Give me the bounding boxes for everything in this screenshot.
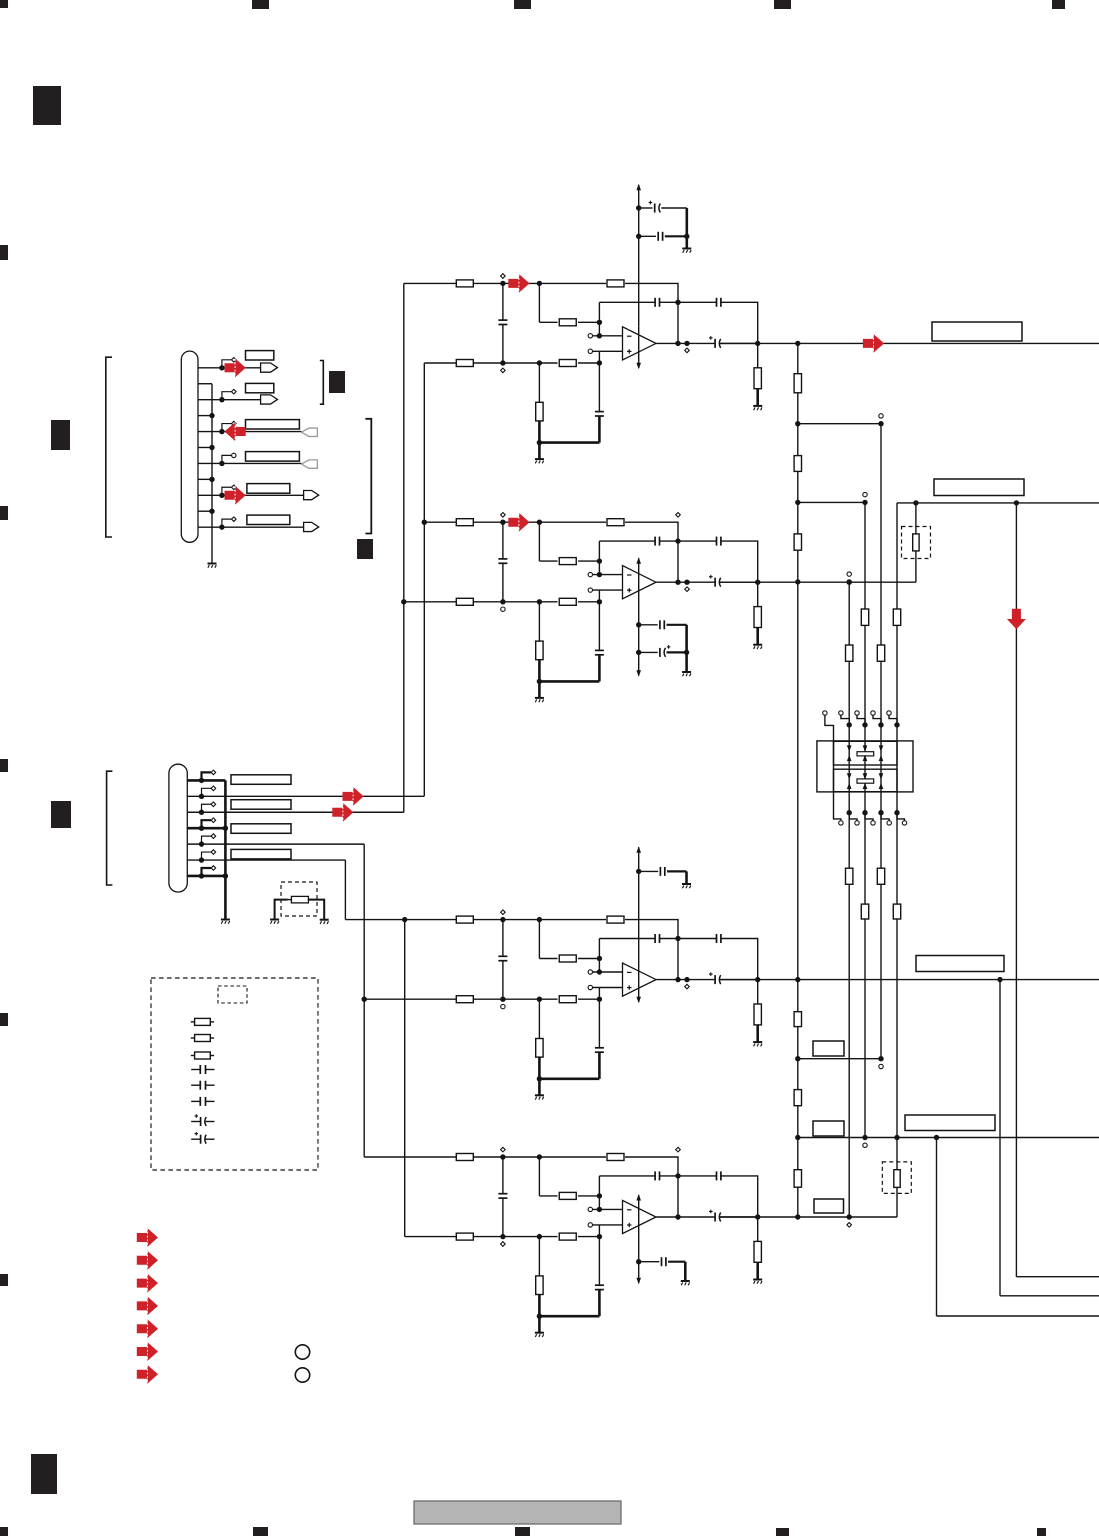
red arrow key 1 xyxy=(137,1228,158,1247)
red arrow key 5 xyxy=(137,1319,158,1338)
wire C106 to ground corner xyxy=(661,207,687,209)
ground rail stage4 xyxy=(681,1280,690,1282)
resistor R201 xyxy=(456,519,473,526)
bracket left of CN101 xyxy=(106,357,112,537)
resistor R305 xyxy=(559,996,576,1003)
op-amp U2 xyxy=(623,566,657,599)
wire chain seg2 xyxy=(797,393,799,456)
capacitor C401 node A xyxy=(502,1157,504,1194)
wire ground node stage2 xyxy=(539,680,599,683)
wire C306 corner xyxy=(667,870,687,872)
label box output 4 xyxy=(905,1115,995,1131)
wire plus input U3 xyxy=(588,985,592,989)
resistor R403 xyxy=(539,1195,557,1197)
resistor R406 xyxy=(538,1237,540,1276)
red arrow key 3 xyxy=(137,1274,158,1293)
capacitor C306 rail xyxy=(639,870,659,872)
label box CN101 pin1 xyxy=(246,351,274,360)
wire node C4 vertical xyxy=(598,1225,600,1285)
capacitor C104 xyxy=(595,411,604,413)
capacitor C406 rail xyxy=(639,1261,660,1263)
wire CN101 pin6 to ground bus xyxy=(198,446,212,448)
wire stage1 row1 mid xyxy=(473,282,606,284)
red arrow key 4 xyxy=(137,1297,158,1316)
ground R215 left xyxy=(270,919,279,921)
wire V- rail stage2 xyxy=(638,558,640,675)
legend electrolytic 2 xyxy=(191,1138,200,1140)
label box CN101 pin5 xyxy=(246,420,300,429)
stub above node A2 xyxy=(501,513,506,518)
switch top terminal 1 xyxy=(839,711,843,715)
stub CN101 pin3 xyxy=(222,392,231,400)
wire output 3 line xyxy=(720,979,1099,981)
resistor R401 xyxy=(456,1154,473,1161)
legend capacitor 2 xyxy=(191,1084,200,1086)
switch top terminal 2 xyxy=(855,711,859,715)
resistor R167 xyxy=(846,868,853,884)
wire CN101 pin4 to ground bus xyxy=(198,415,212,417)
wire node B3 down xyxy=(538,920,540,959)
wire chain seg7 xyxy=(797,1187,799,1217)
switch wiper arrows xyxy=(847,745,852,751)
wire CN101 pin10 to ground bus xyxy=(198,510,212,512)
resistor R304 xyxy=(456,996,473,1003)
stub CN201 pin4 xyxy=(202,820,212,828)
flow arrow pin7 xyxy=(302,460,318,468)
flow arrow pin3 xyxy=(261,395,278,404)
wire R105 to node C xyxy=(578,362,599,364)
capacitor C204 xyxy=(595,649,604,651)
circle marker 1 xyxy=(295,1345,309,1359)
resistor R106 xyxy=(538,363,540,402)
legend capacitor 1 xyxy=(191,1069,200,1071)
switch bottom terminal 3 xyxy=(878,810,883,815)
wire chain seg3 xyxy=(797,471,799,534)
resistor R307 shunt xyxy=(757,980,759,1004)
stub CN201 pin2 xyxy=(202,788,212,796)
wire C403 to output xyxy=(721,1176,758,1217)
wire R305 to node C xyxy=(578,998,599,1000)
switch wiper arrows xyxy=(879,745,884,751)
capacitor C202 feedback xyxy=(599,540,655,542)
ground CN101 xyxy=(208,563,217,565)
stub above feedback corner stage4 xyxy=(676,1147,681,1152)
wire node B4 down xyxy=(538,1157,540,1196)
wire CN101 pin11 signal xyxy=(198,526,304,528)
stub above branch 2 xyxy=(863,492,867,496)
label box output 3 xyxy=(916,956,1004,972)
stub below output U2 xyxy=(685,587,690,592)
resistor R107 shunt xyxy=(757,343,759,367)
resistor R203 xyxy=(539,560,557,562)
op-amp U4 xyxy=(623,1200,657,1233)
wire output line 1 xyxy=(795,341,800,346)
wire CN201 pin6 signal xyxy=(187,859,345,861)
ground R207 xyxy=(753,644,762,646)
resistor R207 shunt xyxy=(757,582,759,606)
wire stage3 row5 mid xyxy=(473,998,557,1000)
stub above node A1 xyxy=(501,274,506,279)
wire stage1 feedback to output xyxy=(625,283,678,343)
wire stage2 input row xyxy=(424,521,456,523)
ground stage3 xyxy=(535,1094,544,1096)
wire stage2 row1 mid xyxy=(473,521,606,523)
switch bottom terminal 0 xyxy=(839,821,843,825)
wire net B2 branch vertical xyxy=(404,920,406,1237)
capacitor C207 rail xyxy=(639,651,658,653)
switch S101 contact 1 xyxy=(857,752,874,756)
label box CN201 pin5 xyxy=(231,824,291,834)
wire C406 corner xyxy=(668,1261,685,1263)
stub CN101 pin5 xyxy=(222,424,231,432)
resistor R168 xyxy=(893,904,900,919)
stub below node A1 xyxy=(501,368,506,373)
legend resistor 2 xyxy=(191,1037,195,1039)
wire ground node stage3 xyxy=(539,1078,599,1081)
ground bus CN201 xyxy=(224,780,227,919)
stub above node A4 xyxy=(501,1147,506,1152)
wire stage2 feedback to output xyxy=(625,522,678,582)
resistor R171 option xyxy=(915,503,917,534)
label box CN201 pin6 xyxy=(231,849,291,859)
capacitor C304 xyxy=(595,1047,604,1049)
wire select net 1 xyxy=(880,424,882,1059)
ground stage2 xyxy=(535,697,544,699)
wire branch row 4 output line xyxy=(798,1137,1099,1139)
wire output 3 exit xyxy=(1000,1295,1099,1297)
wire output U1 xyxy=(656,342,715,344)
wire stage2 minus branch xyxy=(598,541,600,575)
label box R154 xyxy=(813,1041,844,1056)
wire stage3 minus branch xyxy=(598,939,600,973)
wire CN201 pin2 signal xyxy=(187,795,424,797)
wire CN201 pin1 to ground bus xyxy=(187,779,225,782)
wire stage1 row5 mid xyxy=(473,362,557,364)
wire C103 to output xyxy=(721,302,758,343)
capacitor C402 feedback xyxy=(599,1175,655,1177)
resistor R161 xyxy=(877,645,884,661)
wire chain seg6 xyxy=(797,1106,799,1170)
wire output stage3 cont xyxy=(720,979,758,981)
capacitor C105 output xyxy=(714,339,716,348)
connector CN201 xyxy=(169,764,187,892)
wire node C2 vertical xyxy=(598,590,600,650)
stub below node A3 xyxy=(501,1004,505,1008)
wire select net 2 xyxy=(864,502,866,1137)
label box R156 xyxy=(814,1199,844,1213)
red arrow pin1 xyxy=(225,358,246,377)
red arrow CN201 pin2 xyxy=(343,787,364,806)
wire output U3 xyxy=(656,979,715,981)
gray bar xyxy=(414,1501,621,1524)
wire select net 4 xyxy=(896,503,898,1138)
wire select net 3 xyxy=(847,572,851,576)
wire C303 to output xyxy=(721,939,758,980)
resistor R166 xyxy=(861,904,868,919)
label box output 2 xyxy=(934,479,1024,496)
capacitor C206 rail xyxy=(639,624,658,626)
switch bottom terminal 2 xyxy=(862,810,867,815)
ground R215 right xyxy=(320,919,329,921)
wire CN101 pin3 signal xyxy=(198,399,261,401)
legend electrolytic 1 xyxy=(191,1121,200,1123)
wire plus input U2 xyxy=(588,588,592,592)
capacitor C106 rail xyxy=(639,207,653,209)
wire CN101 pin8 to ground bus xyxy=(198,478,212,480)
op-amp U3 xyxy=(623,963,657,996)
flow arrow pin11 xyxy=(304,522,319,531)
resistor R303 xyxy=(539,958,557,960)
ground bus CN101 xyxy=(211,384,213,564)
wire CN101 pin7 signal xyxy=(198,462,302,464)
resistor R302 feedback xyxy=(607,916,624,923)
wire node B2 down xyxy=(538,522,540,561)
circle marker 2 xyxy=(295,1368,309,1382)
capacitor C203 feedback xyxy=(678,540,717,542)
wire C404 to ground node xyxy=(598,1290,601,1317)
stub CN201 pin1 xyxy=(202,772,212,780)
wire output 2 line xyxy=(720,581,916,583)
wire stage3 row1 mid xyxy=(473,919,606,921)
legend resistor 3 xyxy=(191,1055,195,1057)
resistor R154 xyxy=(794,1012,801,1027)
ground R407 xyxy=(753,1279,762,1281)
flow arrow pin5 xyxy=(302,428,318,436)
ground rail stage3 xyxy=(682,883,691,885)
label box R155 xyxy=(813,1121,844,1136)
wire C206 corner xyxy=(667,624,687,626)
wire V rail stage4 xyxy=(638,1195,640,1283)
flow arrow pin1 xyxy=(261,363,278,372)
wire stage3 row5 xyxy=(364,998,456,1000)
wire C304 to ground node xyxy=(598,1052,601,1079)
switch S101 section 1 xyxy=(834,741,898,765)
wire CN101 pin9 signal xyxy=(198,494,304,496)
wire output 4 line xyxy=(720,1216,898,1218)
resistor R151 xyxy=(794,374,801,393)
red arrow pin5 xyxy=(225,422,246,441)
resistor R306 xyxy=(538,999,540,1038)
wire net B1 vertical xyxy=(423,363,425,796)
ground rail stage1 xyxy=(682,248,691,250)
ground stage1 xyxy=(535,458,544,460)
wire C207 to ground xyxy=(667,651,687,653)
capacitor C303 feedback xyxy=(678,938,717,940)
label box output 1 xyxy=(932,322,1022,341)
label box CN101 pin7 xyxy=(246,452,300,462)
wire CN201 pin5 signal xyxy=(187,843,364,845)
capacitor C302 feedback xyxy=(599,938,655,940)
capacitor C102 feedback xyxy=(599,301,655,303)
wire CN201 pin4 to ground bus xyxy=(187,827,225,830)
resistor R202 feedback xyxy=(607,519,624,526)
wire C203 to output xyxy=(721,541,758,582)
resistor R101 xyxy=(456,280,473,287)
wire CN101 pin1 signal xyxy=(198,367,261,369)
wire stage2 row5 mid xyxy=(473,601,557,603)
wire stage4 row5 mid xyxy=(473,1236,557,1238)
wire stage4 input row xyxy=(364,1156,456,1158)
red arrow key 6 xyxy=(137,1342,158,1361)
wire V+ rail stage3 xyxy=(638,847,640,1002)
wire ground node stage1 xyxy=(539,441,599,444)
wire output U2 xyxy=(656,581,715,583)
wire stage4 row1 mid xyxy=(473,1156,606,1158)
stub below output U3 xyxy=(685,984,690,989)
capacitor C301 node A xyxy=(502,920,504,957)
switch top terminal 0 xyxy=(823,711,827,715)
bracket right of CN101 pins 1-3 xyxy=(320,361,324,405)
resistor R205 xyxy=(559,598,576,605)
stub below output U1 xyxy=(685,348,690,353)
resistor R404 xyxy=(456,1233,473,1240)
stub CN101 pin1 xyxy=(222,360,231,368)
wire output stage2 cont xyxy=(720,581,758,583)
resistor R172 option xyxy=(896,1138,898,1170)
resistor R215 chassis link xyxy=(291,896,308,903)
resistor R104 xyxy=(456,360,473,367)
legend inner box xyxy=(218,986,247,1003)
wire branch 4 down xyxy=(936,1138,938,1317)
capacitor C107 rail xyxy=(639,235,656,237)
capacitor C403 feedback xyxy=(678,1175,717,1177)
stub below branch 4 xyxy=(863,1143,867,1147)
wire R406 to ground node xyxy=(538,1295,541,1317)
red arrow key 7 xyxy=(137,1365,158,1384)
wire R207 to ground xyxy=(756,628,759,645)
wire output U4 xyxy=(656,1216,715,1218)
label box CN201 pin2 xyxy=(231,775,291,785)
legend resistor 1 xyxy=(191,1021,195,1023)
wire branch row 2 xyxy=(798,501,865,503)
wire output line 2 xyxy=(897,502,1099,504)
wire CN101 pin2 to ground bus xyxy=(198,383,212,385)
red arrow stage2 input xyxy=(508,513,529,532)
wire plus input U1 xyxy=(588,349,592,353)
wire chain seg5 xyxy=(797,1027,799,1090)
wire R106 to ground node xyxy=(538,421,541,443)
stub below node A2 xyxy=(501,607,505,611)
ground stage4 xyxy=(535,1332,544,1334)
wire R206 to ground node xyxy=(538,660,541,682)
wire output 3 branch down xyxy=(999,980,1001,1296)
op-amp U1 xyxy=(623,327,657,360)
ground CN201 xyxy=(221,919,230,921)
resistor R164 xyxy=(893,609,900,625)
resistor R153 xyxy=(794,534,801,550)
wire C107 to ground xyxy=(665,235,687,237)
stub CN201 pin3 xyxy=(202,804,212,812)
capacitor C101 node A xyxy=(502,283,504,320)
stub above feedback corner stage2 xyxy=(676,513,681,518)
resistor R162 xyxy=(861,609,868,625)
label box CN101 pin3 xyxy=(246,383,274,392)
label box CN101 pin9 xyxy=(247,484,290,494)
wire minus input U3 xyxy=(588,970,592,974)
wire C204 to ground node xyxy=(598,655,601,682)
resistor R204 xyxy=(456,598,473,605)
stub CN101 pin7 xyxy=(222,455,231,463)
resistor R165 xyxy=(877,868,884,884)
wire minus input U1 xyxy=(588,334,592,338)
stub above branch 1 xyxy=(879,414,883,418)
wire stage1 minus branch xyxy=(598,302,600,336)
wire branch row 1 xyxy=(798,423,881,425)
wire R307 to ground xyxy=(756,1025,759,1042)
switch top terminal 4 xyxy=(887,711,891,715)
wire output stage1 cont xyxy=(720,342,758,344)
wire CN201 pin3 signal xyxy=(187,811,403,813)
wire stage4 minus branch xyxy=(598,1176,600,1210)
wire supply through U1 xyxy=(638,327,640,368)
stub CN201 pin5 xyxy=(202,836,212,844)
wire output stage4 cont xyxy=(720,1216,758,1218)
red arrow output 1 xyxy=(863,334,884,353)
wire ground node stage4 xyxy=(539,1315,599,1318)
switch S101 outer xyxy=(817,741,913,792)
stub below branch 3 xyxy=(879,1064,883,1068)
wire CN101 pin5 signal xyxy=(198,431,302,433)
switch S101 contact 2 xyxy=(857,779,874,783)
switch bottom terminal 1 xyxy=(847,810,852,815)
red arrow key 2 xyxy=(137,1251,158,1270)
stub CN201 pin7 xyxy=(202,868,212,876)
resistor R105 xyxy=(559,360,576,367)
wire V+ rail stage1 xyxy=(638,185,640,327)
resistor R402 feedback xyxy=(607,1154,624,1161)
legend capacitor 3 xyxy=(191,1100,200,1102)
wire net A1 vertical xyxy=(403,283,405,812)
wire R107 to ground xyxy=(756,389,759,406)
wire net A2 vertical xyxy=(363,844,365,1157)
wire stage3 feedback to output xyxy=(625,920,678,980)
switch wiper arrows xyxy=(863,745,868,751)
switch bottom terminal 4 xyxy=(894,810,899,815)
stub below select net 3 xyxy=(847,1223,852,1228)
ground R307 xyxy=(753,1041,762,1043)
wire chain seg4 xyxy=(797,550,799,1012)
wire monitor exit xyxy=(1016,1276,1099,1278)
wire node C3 vertical xyxy=(598,988,600,1048)
wire branch row 3 xyxy=(798,1058,881,1060)
resistor R301 xyxy=(456,916,473,923)
wire R407 to ground xyxy=(756,1262,759,1279)
wire stage1 row5 xyxy=(424,362,456,364)
capacitor C103 feedback xyxy=(678,301,717,303)
red arrow CN201 pin3 xyxy=(332,803,353,822)
wire output 1 line xyxy=(720,342,1099,344)
resistor R407 shunt xyxy=(757,1217,759,1241)
wire C104 to ground node xyxy=(598,416,601,443)
red arrow down xyxy=(1007,609,1026,629)
stub CN101 pin9 xyxy=(222,487,231,495)
wire stage4 row5 xyxy=(405,1236,457,1238)
switch top terminal 3 xyxy=(871,711,875,715)
label box CN201 pin3 xyxy=(231,800,291,810)
wire CN201 pin7 to ground bus xyxy=(187,875,225,878)
resistor R163 xyxy=(846,645,853,661)
wire monitor branch down xyxy=(1015,503,1017,1277)
resistor R102 feedback xyxy=(607,280,624,287)
wire R306 to ground node xyxy=(538,1057,541,1079)
wire stage4 feedback to output xyxy=(625,1157,678,1217)
wire node C1 vertical xyxy=(598,351,600,411)
resistor R152 xyxy=(794,456,801,472)
red arrow stage1 input xyxy=(508,274,529,293)
resistor R156 xyxy=(794,1170,801,1188)
wire minus input U4 xyxy=(588,1207,592,1211)
capacitor C405 output xyxy=(714,1213,716,1222)
